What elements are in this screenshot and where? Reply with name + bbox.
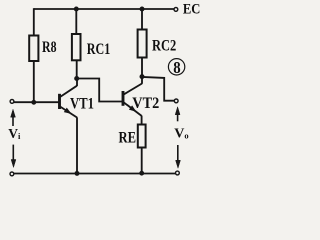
resistor RC2 [138,30,147,58]
node collector VT1 / RC1 junction [74,76,79,81]
svg-text:Vo: Vo [174,126,188,141]
wire RC2 bottom lead [141,58,143,77]
junction top rail / RC2 [140,7,145,12]
wire output tap to terminal [142,77,174,101]
resistor RC1 [72,34,81,60]
svg-text:RE: RE [119,129,137,146]
svg-text:VT2: VT2 [132,95,159,112]
resistor RE [138,125,146,148]
node collector VT2 / RC2 junction [140,74,145,79]
terminal EC (open circle) [174,7,178,11]
junction emitter VT1 / ground rail [75,171,80,176]
svg-text:EC: EC [183,1,200,17]
wire RC2 top lead [141,9,143,30]
svg-text:VT1: VT1 [70,95,94,112]
wire emitter VT1 down to ground rail [76,117,78,173]
wire top supply rail [34,8,174,10]
wire R8 bottom lead [33,61,35,102]
svg-text:RC1: RC1 [87,41,111,58]
wire RC1 bottom lead [76,60,78,78]
terminal input top (open circle) [10,100,14,104]
wire RC1 top lead [75,9,77,34]
transistor VT2 [123,77,142,116]
node Vo polarity arrows [175,107,180,168]
junction base node VT1/R8 [31,100,36,105]
wire RE bottom lead [141,148,143,174]
wire input line to base VT1 [14,101,59,103]
svg-text:8: 8 [173,58,180,77]
junction top rail / RC1 [74,7,79,12]
wire emitter VT2 to RE [141,116,143,125]
junction RE / ground rail [139,171,144,176]
svg-text:R8: R8 [42,39,57,56]
wire bottom ground rail [14,173,175,175]
terminal output bottom (open circle) [176,171,180,175]
resistor R8 [29,36,38,62]
svg-text:Vi: Vi [8,126,21,141]
transistor VT1 [60,79,78,118]
svg-text:RC2: RC2 [152,38,176,55]
wire coupling collector VT1 to base VT2 [77,79,123,102]
wire R8 top lead [33,8,35,35]
node Vi polarity arrows [11,109,16,167]
terminal output top (open circle) [174,99,178,103]
node figure number 8 circle [168,59,184,75]
terminal input bottom (open circle) [10,172,14,176]
